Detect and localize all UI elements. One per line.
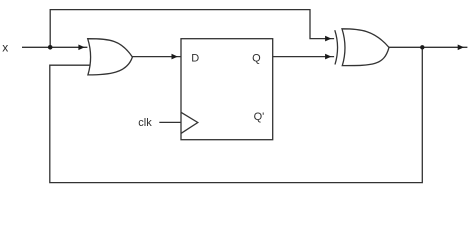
svg-text:clk: clk [138,117,152,129]
svg-text:x: x [2,41,8,55]
svg-text:D: D [191,53,199,65]
svg-text:Q': Q' [254,111,265,123]
svg-text:Q: Q [252,52,261,64]
